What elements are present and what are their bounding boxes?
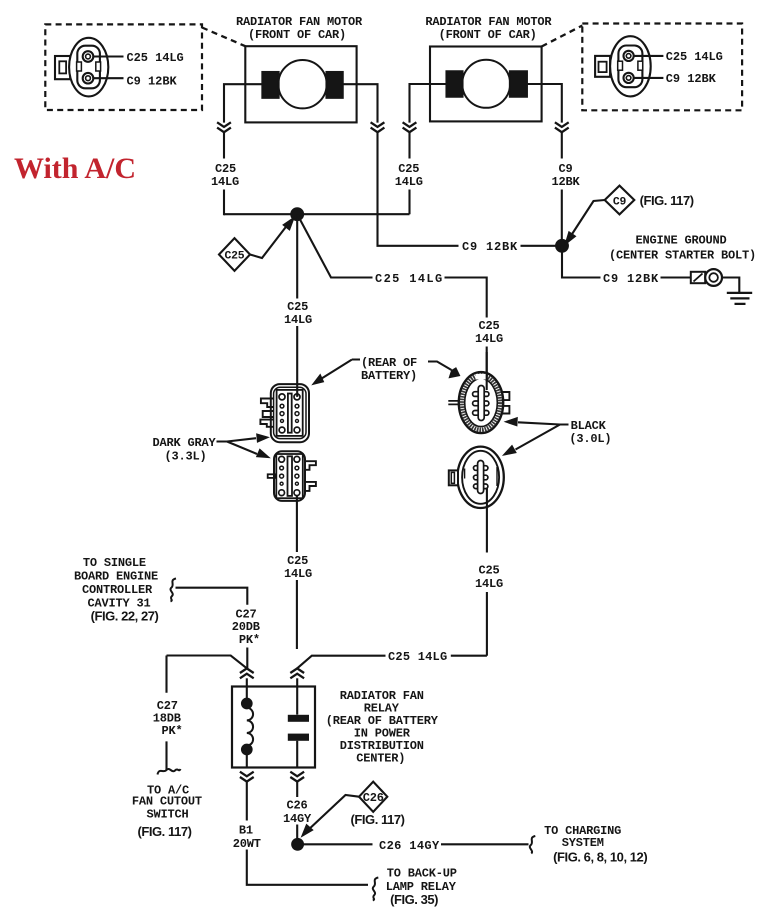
svg-text:(FRONT OF CAR): (FRONT OF CAR) — [439, 28, 537, 42]
inline connector break — [403, 122, 417, 132]
wire C27 from controller — [176, 588, 248, 669]
connector C25 oval bottom (black 3.0L) — [449, 447, 504, 508]
off-page squiggle (to back-up lamp relay) — [373, 878, 379, 901]
dark gray (3.3L) label leaders — [217, 435, 268, 457]
svg-text:C25: C25 — [225, 251, 245, 263]
radiator fan motor M2 (front of car) — [430, 47, 542, 122]
wire C26 to charging system — [302, 843, 529, 845]
svg-text:C9 12BK: C9 12BK — [462, 240, 518, 254]
pin C9 (right detail) — [624, 73, 664, 83]
svg-text:14LG: 14LG — [395, 175, 423, 189]
svg-text:C25 14LG: C25 14LG — [666, 50, 723, 64]
side tabs — [448, 401, 459, 405]
inline connector break — [217, 122, 231, 132]
inline connector break — [555, 122, 569, 132]
svg-text:DARK GRAY: DARK GRAY — [152, 436, 216, 450]
left tab — [449, 470, 458, 485]
svg-text:14LG: 14LG — [284, 313, 312, 327]
connector C25/C9 detail box left (dashed) — [45, 24, 245, 110]
pins right column — [294, 456, 300, 462]
radiator fan motor M1 (front of car) — [245, 46, 356, 122]
ground bolt terminal — [691, 269, 740, 293]
svg-text:C25 14LG: C25 14LG — [375, 272, 442, 286]
inline connector break (up) — [240, 668, 254, 678]
svg-text:C25: C25 — [287, 554, 308, 568]
wire down from junction A to connector — [296, 214, 298, 397]
svg-text:CENTER): CENTER) — [356, 752, 405, 766]
pin C25 (right detail) — [624, 51, 664, 61]
svg-text:(3.3L): (3.3L) — [164, 449, 206, 463]
svg-text:(CENTER STARTER BOLT): (CENTER STARTER BOLT) — [609, 248, 756, 262]
connector icon right: oval housing — [595, 36, 651, 96]
svg-text:C25: C25 — [287, 300, 308, 314]
svg-text:C25 14LG: C25 14LG — [127, 51, 184, 65]
svg-text:14LG: 14LG — [475, 577, 503, 591]
C26 diamond symbol — [303, 782, 388, 836]
wire horizontal C25 bus — [224, 213, 410, 215]
svg-text:14LG: 14LG — [284, 567, 312, 581]
svg-text:C9 12BK: C9 12BK — [127, 74, 178, 88]
svg-text:(FIG. 22, 27): (FIG. 22, 27) — [91, 608, 159, 623]
wire diagonal from junction A to right branch — [297, 214, 487, 389]
node junction C (C26) — [292, 839, 303, 850]
inline connector break below relay left (down) — [240, 772, 254, 782]
svg-text:RADIATOR FAN MOTOR: RADIATOR FAN MOTOR — [236, 15, 363, 29]
wire C25 horizontal into relay right pin — [297, 656, 487, 669]
svg-text:B1: B1 — [239, 824, 253, 838]
connector icon left: oval housing — [55, 38, 108, 97]
inline connector break (up) — [290, 668, 304, 678]
svg-text:(FIG. 117): (FIG. 117) — [351, 812, 405, 827]
pins left column — [279, 456, 285, 462]
connector C25 oval top (black 3.0L, rear of battery) — [448, 372, 509, 433]
svg-text:(FIG. 6, 8, 10, 12): (FIG. 6, 8, 10, 12) — [553, 849, 647, 864]
caterpillar pins — [473, 392, 489, 397]
C25 diamond symbol — [219, 219, 293, 271]
svg-text:C9 12BK: C9 12BK — [666, 72, 717, 86]
off-page squiggle (to charging system) — [530, 836, 536, 854]
wire C25 oval top entry — [486, 352, 488, 390]
svg-text:C25 14LG: C25 14LG — [388, 650, 447, 664]
svg-text:C9 12BK: C9 12BK — [603, 272, 659, 286]
svg-text:(FRONT OF CAR): (FRONT OF CAR) — [248, 28, 346, 42]
mounting tabs — [305, 461, 316, 470]
wire motor2 right C9 — [527, 84, 562, 123]
wire C26 14GY from relay to junction — [296, 782, 298, 845]
pin C25 (left detail) — [83, 51, 124, 62]
svg-text:BOARD ENGINE: BOARD ENGINE — [74, 569, 158, 583]
svg-text:SWITCH: SWITCH — [146, 808, 188, 822]
ground (earth symbol) — [727, 293, 752, 304]
connector C25 bottom (dark gray 3.3L) — [268, 451, 316, 501]
svg-text:SYSTEM: SYSTEM — [562, 836, 604, 850]
wire C25 oval bottom exit — [486, 488, 488, 656]
svg-text:C26 14GY: C26 14GY — [379, 839, 440, 853]
wire C9 down and right to junction — [378, 132, 563, 246]
svg-text:C26: C26 — [286, 799, 307, 813]
svg-text:PK*: PK* — [161, 724, 182, 738]
off-page squiggle (to single board engine controller) — [170, 579, 176, 602]
svg-text:14GY: 14GY — [283, 812, 312, 826]
svg-text:BLACK: BLACK — [571, 419, 607, 433]
connector C25/C9 detail box right (dashed) — [542, 24, 743, 111]
wire — [408, 132, 410, 214]
wire — [246, 678, 248, 686]
svg-text:(FIG. 117): (FIG. 117) — [137, 824, 191, 839]
wire B1 20WT to back-up lamp relay — [247, 782, 368, 885]
caterpillar pins — [474, 466, 488, 471]
inline connector break below relay right (down) — [290, 772, 304, 782]
C9 diamond symbol — [566, 186, 634, 244]
svg-text:C25: C25 — [478, 319, 499, 333]
svg-text:(REAR OF: (REAR OF — [361, 356, 417, 370]
wire C27 18DB branch — [167, 656, 247, 771]
svg-text:BATTERY): BATTERY) — [361, 369, 417, 383]
svg-text:(FIG. 117): (FIG. 117) — [640, 193, 694, 208]
pins left column — [279, 394, 285, 400]
svg-text:TO SINGLE: TO SINGLE — [83, 556, 146, 570]
off-page squiggle (to A/C fan cutout switch) — [158, 769, 181, 775]
node junction A (C25 splice) — [291, 208, 303, 220]
(rear of battery) label leaders — [314, 360, 459, 384]
wire motor1 right C9 — [343, 84, 378, 122]
svg-text:C25: C25 — [398, 162, 419, 176]
relay coil — [242, 687, 253, 768]
wire — [296, 678, 298, 686]
svg-text:ENGINE GROUND: ENGINE GROUND — [635, 233, 726, 247]
svg-text:CONTROLLER: CONTROLLER — [82, 583, 153, 597]
wire C25 from bottom connector down to relay — [296, 496, 298, 649]
pins right column — [294, 394, 300, 400]
svg-text:TO BACK-UP: TO BACK-UP — [387, 867, 457, 881]
svg-text:C9: C9 — [558, 162, 572, 176]
wire motor1 left C25 — [224, 84, 262, 122]
svg-text:20WT: 20WT — [233, 837, 261, 851]
wire — [223, 132, 225, 215]
pin C9 (left detail) — [83, 73, 124, 84]
inline connector break — [371, 122, 385, 132]
node junction B (C9 splice) — [556, 240, 568, 252]
mounting tabs — [261, 399, 274, 408]
svg-text:C9: C9 — [613, 196, 627, 208]
black (3.0L) label leaders — [505, 418, 569, 454]
svg-text:(3.0L): (3.0L) — [569, 432, 611, 446]
relay contact — [288, 687, 309, 768]
wire from junction B to engine ground — [562, 246, 691, 278]
svg-text:14LG: 14LG — [475, 332, 503, 346]
svg-text:C26: C26 — [363, 791, 384, 805]
svg-text:12BK: 12BK — [551, 175, 580, 189]
svg-text:PK*: PK* — [239, 633, 260, 647]
svg-text:14LG: 14LG — [211, 175, 239, 189]
svg-text:(FIG. 35): (FIG. 35) — [390, 892, 438, 907]
relay K1 radiator fan relay box — [232, 687, 315, 768]
connector C25 top (dark gray 3.3L, rear of battery) — [260, 384, 309, 442]
svg-text:With A/C: With A/C — [14, 152, 136, 185]
wire motor2 left C25 — [410, 84, 447, 123]
svg-text:C25: C25 — [215, 162, 236, 176]
wire — [561, 132, 563, 246]
svg-text:RADIATOR FAN MOTOR: RADIATOR FAN MOTOR — [425, 15, 552, 29]
svg-text:C25: C25 — [478, 563, 499, 577]
